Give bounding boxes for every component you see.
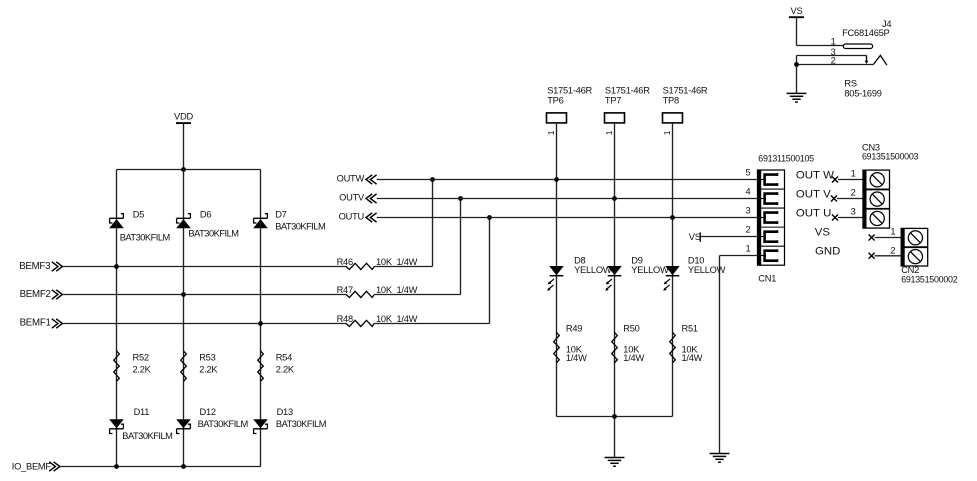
diode D12: [176, 419, 191, 433]
wire column 1: [116, 170, 118, 467]
svg-text:1: 1: [745, 244, 750, 254]
label J4 pin number 1: [831, 37, 836, 47]
label R49: [566, 323, 582, 333]
label CN1 pin number 4: [745, 187, 750, 197]
svg-text:TP6: TP6: [547, 96, 563, 106]
wire IO_BEMF: [60, 466, 261, 468]
svg-text:BAT30KFILM: BAT30KFILM: [275, 222, 325, 232]
label CN2 pin number 2: [890, 245, 895, 255]
svg-text:1/4W: 1/4W: [682, 353, 703, 363]
label CN1 pin number 1: [745, 244, 750, 254]
resistor R47: [346, 291, 374, 297]
svg-text:805-1699: 805-1699: [844, 89, 881, 99]
wire CN1 pin 1 to ground: [720, 256, 758, 454]
svg-text:BAT30KFILM: BAT30KFILM: [122, 431, 172, 441]
label CN2 part 691351500002: [901, 274, 958, 284]
svg-text:D13: D13: [277, 407, 293, 417]
label RS: [844, 78, 856, 88]
no-connect X GND: [869, 253, 875, 259]
svg-text:2: 2: [851, 187, 856, 197]
junction BEMF3 column 1: [114, 264, 119, 269]
junction BEMF1 column 3: [258, 321, 263, 326]
label R53 value: [199, 365, 218, 375]
resistor R49: [554, 332, 560, 362]
svg-text:1/4W: 1/4W: [566, 353, 587, 363]
label D6 value: [188, 229, 238, 239]
wire OUTV: [377, 198, 758, 200]
svg-text:5: 5: [745, 168, 750, 178]
net label VS (CN1 pin 2): [689, 232, 701, 242]
connector CN2 body: [901, 228, 928, 266]
wire TP6 column: [556, 123, 558, 417]
junction R48 OUTU: [487, 215, 492, 220]
svg-text:R49: R49: [566, 323, 582, 333]
label TP6 pin 1: [546, 130, 556, 135]
junction TP7: [612, 196, 617, 201]
wire column 2: [183, 170, 185, 467]
ground (J4): [787, 93, 807, 102]
svg-text:10K 1/4W: 10K 1/4W: [376, 285, 418, 295]
svg-text:TP8: TP8: [663, 96, 679, 106]
label R50 value 10K: [623, 344, 640, 354]
resistor R50: [612, 332, 618, 362]
svg-text:OUT U: OUT U: [796, 208, 831, 220]
connector CN1 pin 4 contact: [758, 192, 778, 205]
label R46: [337, 257, 353, 267]
label D11: [134, 407, 150, 417]
port BEMF3: [19, 261, 62, 272]
wire OUT W to CN3 pin 1: [838, 179, 863, 181]
LED D9: [605, 266, 622, 291]
svg-text:D7: D7: [275, 210, 286, 220]
connector CN1 body: [758, 170, 785, 265]
svg-text:4: 4: [745, 187, 750, 197]
svg-text:1: 1: [831, 37, 836, 47]
label TP7 refdes: [605, 96, 621, 106]
svg-text:CN1: CN1: [758, 273, 776, 283]
svg-text:BAT30KFILM: BAT30KFILM: [198, 419, 248, 429]
wire R48 to OUTU: [374, 218, 489, 324]
svg-text:S1751-46R: S1751-46R: [605, 85, 650, 95]
ground (LED bus): [605, 458, 625, 467]
label CN3 part 691351500003: [862, 152, 919, 162]
wire ground stem: [614, 417, 616, 458]
junction J4 pin 2 node: [794, 62, 799, 67]
label J4 refdes: [882, 19, 891, 29]
diode D11: [109, 419, 124, 433]
connector CN1 pin 2 contact: [758, 230, 778, 243]
label TP8 pin 1: [662, 130, 672, 135]
svg-text:2.2K: 2.2K: [276, 365, 295, 375]
label D13 value: [276, 419, 326, 429]
svg-text:RS: RS: [844, 78, 856, 88]
svg-text:D9: D9: [631, 256, 642, 266]
svg-text:3: 3: [851, 206, 856, 216]
junction R47 OUTV: [458, 196, 463, 201]
port IO_BEMF: [12, 461, 60, 471]
svg-text:BAT30KFILM: BAT30KFILM: [120, 233, 170, 243]
net label OUT U: [796, 208, 831, 220]
wire VS stem to J4 pin 1: [797, 17, 844, 45]
wire J4 pin 2: [797, 64, 874, 66]
label D5: [133, 210, 144, 220]
wire column 3: [260, 170, 262, 467]
label R51 value 10K: [682, 344, 699, 354]
resistor R48: [346, 320, 374, 326]
svg-text:R50: R50: [623, 323, 639, 333]
svg-text:2: 2: [745, 225, 750, 235]
label CN1 pin number 3: [745, 206, 750, 216]
wire OUTW: [377, 179, 758, 181]
svg-text:FC681465P: FC681465P: [842, 28, 889, 38]
svg-text:VS: VS: [815, 227, 831, 239]
svg-text:VS: VS: [791, 6, 803, 16]
port BEMF1: [20, 318, 63, 329]
wire J4 pin3 to pin2 to ground: [796, 56, 798, 94]
svg-text:YELLOW: YELLOW: [574, 265, 612, 275]
label D10: [688, 256, 704, 266]
label J4 pin number 3: [831, 47, 836, 57]
connector J4 switch arrow: [865, 56, 869, 65]
LED D8: [547, 266, 564, 291]
label D7 value: [275, 222, 325, 232]
wire GND to CN2 pin 2: [875, 255, 902, 257]
svg-text:GND: GND: [815, 246, 840, 258]
svg-text:2: 2: [890, 245, 895, 255]
svg-text:D6: D6: [200, 210, 211, 220]
label D12: [200, 407, 216, 417]
svg-text:OUTV: OUTV: [339, 193, 365, 203]
svg-text:OUT W: OUT W: [796, 170, 834, 182]
label TP8 refdes: [663, 96, 679, 106]
label TP6 part S1751-46R: [547, 85, 592, 95]
svg-text:OUT V: OUT V: [796, 189, 831, 201]
svg-text:1/4W: 1/4W: [623, 353, 644, 363]
svg-text:D8: D8: [574, 256, 585, 266]
resistor R54: [258, 351, 264, 381]
label R48 value: [376, 314, 418, 324]
port BEMF2: [20, 289, 63, 300]
port OUTW: [337, 174, 377, 185]
connector CN3 body: [863, 170, 890, 228]
diode D7: [253, 214, 268, 229]
label R51 value 1/4W: [682, 353, 703, 363]
LED D10: [663, 266, 680, 291]
svg-text:R48: R48: [337, 314, 353, 324]
label R49 value 10K: [566, 344, 583, 354]
junction LED ground bus: [612, 414, 617, 419]
label D11 value: [122, 431, 172, 441]
junction IO_BEMF column 1: [114, 464, 119, 469]
label 805-1699: [844, 89, 881, 99]
wire BEMF3: [63, 266, 347, 268]
svg-text:2.2K: 2.2K: [199, 365, 218, 375]
no-connect X VS: [869, 235, 875, 241]
wire VDD stem: [183, 123, 185, 169]
label D13: [277, 407, 293, 417]
svg-text:BAT30KFILM: BAT30KFILM: [188, 229, 238, 239]
label R48: [337, 314, 353, 324]
label R47 value: [376, 285, 418, 295]
wire VS to CN1 pin 2: [700, 236, 757, 238]
wire VS to CN2 pin 1: [875, 237, 902, 239]
svg-text:10K 1/4W: 10K 1/4W: [376, 314, 418, 324]
label CN2 refdes: [901, 265, 919, 275]
junction TP6: [554, 177, 559, 182]
junction TP8: [670, 215, 675, 220]
svg-text:OUTU: OUTU: [339, 212, 364, 222]
label TP7 pin 1: [604, 130, 614, 135]
svg-text:1: 1: [851, 168, 856, 178]
label D7: [275, 210, 286, 220]
diode D13: [253, 419, 268, 433]
label CN3 pin number 1: [851, 168, 856, 178]
label R52 value: [133, 365, 152, 375]
label CN1 pin number 2: [745, 225, 750, 235]
label R49 value 1/4W: [566, 353, 587, 363]
svg-text:BAT30KFILM: BAT30KFILM: [276, 419, 326, 429]
label CN1 pin number 5: [745, 168, 750, 178]
connector J4 pin 1 contact (tip): [843, 44, 872, 49]
svg-text:R52: R52: [133, 352, 149, 362]
svg-text:BEMF3: BEMF3: [19, 261, 50, 272]
net label OUT V: [796, 189, 831, 201]
svg-text:691351500002: 691351500002: [901, 274, 958, 284]
port OUTU: [339, 212, 377, 223]
label R46 value: [376, 257, 418, 267]
no-connect X OUT V: [831, 196, 837, 202]
label CN3 pin number 2: [851, 187, 856, 197]
wire TP7 column: [614, 123, 616, 417]
wire BEMF2: [63, 294, 347, 296]
power flag VDD: [174, 111, 193, 123]
label TP7 part S1751-46R: [605, 85, 650, 95]
label TP6 refdes: [547, 96, 563, 106]
svg-text:691351500003: 691351500003: [862, 152, 919, 162]
svg-text:D12: D12: [200, 407, 216, 417]
svg-text:R47: R47: [337, 285, 353, 295]
svg-text:VS: VS: [689, 232, 701, 242]
junction VDD bus: [181, 167, 186, 172]
label D6: [200, 210, 211, 220]
svg-text:S1751-46R: S1751-46R: [547, 85, 592, 95]
wire OUTU: [377, 217, 758, 219]
svg-text:VDD: VDD: [174, 111, 193, 121]
svg-text:BEMF1: BEMF1: [20, 318, 51, 329]
wire OUT V to CN3 pin 2: [837, 198, 863, 200]
resistor R52: [114, 351, 120, 381]
svg-text:3: 3: [745, 206, 750, 216]
test point TP7: [605, 113, 625, 123]
svg-text:IO_BEMF: IO_BEMF: [12, 461, 52, 471]
svg-text:691311500105: 691311500105: [758, 153, 814, 163]
svg-text:TP7: TP7: [605, 96, 621, 106]
label CN3 refdes: [862, 142, 880, 152]
net label OUT W: [796, 170, 834, 182]
svg-text:D11: D11: [134, 407, 150, 417]
svg-text:1: 1: [662, 130, 672, 135]
svg-text:2.2K: 2.2K: [133, 365, 152, 375]
junction R46 OUTW: [430, 177, 435, 182]
svg-text:S1751-46R: S1751-46R: [663, 85, 708, 95]
label R47: [337, 285, 353, 295]
no-connect X OUT U: [832, 215, 838, 221]
svg-text:10K 1/4W: 10K 1/4W: [376, 257, 418, 267]
resistor R51: [670, 332, 676, 362]
wire R46 to OUTW: [374, 180, 432, 267]
resistor R53: [181, 351, 187, 381]
label D9: [631, 256, 642, 266]
connector CN1 pin 1 contact: [758, 249, 778, 262]
port OUTV: [339, 193, 376, 204]
svg-text:R51: R51: [682, 323, 698, 333]
diode D5: [109, 214, 124, 229]
svg-text:D10: D10: [688, 256, 704, 266]
label D8: [574, 256, 585, 266]
label R50 value 1/4W: [623, 353, 644, 363]
net label GND: [815, 246, 840, 258]
wire VDD bus: [117, 169, 261, 171]
test point TP8: [663, 113, 683, 123]
label J4 value FC681465P: [842, 28, 889, 38]
label D10 value YELLOW: [688, 265, 726, 275]
svg-text:1: 1: [604, 130, 614, 135]
label D5 value: [120, 233, 170, 243]
resistor R46: [346, 263, 374, 269]
label CN2 pin number 1: [890, 226, 895, 236]
no-connect X OUT W: [832, 177, 838, 183]
svg-text:R54: R54: [276, 352, 292, 362]
junction IO_BEMF column 2: [181, 464, 186, 469]
wire J4 pin 3: [797, 55, 867, 57]
diode D6: [176, 214, 191, 229]
junction BEMF2 column 2: [181, 292, 186, 297]
svg-text:R53: R53: [199, 352, 215, 362]
svg-text:OUTW: OUTW: [337, 174, 365, 184]
test point TP6: [547, 113, 567, 123]
connector CN1 pin 5 contact: [758, 173, 778, 186]
label R54 value: [276, 365, 295, 375]
label R54: [276, 352, 292, 362]
svg-text:1: 1: [546, 130, 556, 135]
wire OUT U to CN3 pin 3: [838, 217, 863, 219]
label R51: [682, 323, 698, 333]
label D8 value YELLOW: [574, 265, 612, 275]
label CN1 part 691311500105: [758, 153, 814, 163]
svg-text:R46: R46: [337, 257, 353, 267]
net label VS (CN2): [815, 227, 831, 239]
svg-text:1: 1: [890, 226, 895, 236]
svg-text:YELLOW: YELLOW: [631, 265, 669, 275]
label TP8 part S1751-46R: [663, 85, 708, 95]
label R52: [133, 352, 149, 362]
label CN1 refdes: [758, 273, 776, 283]
label D9 value YELLOW: [631, 265, 669, 275]
label R53: [199, 352, 215, 362]
power flag VS (J4 supply): [789, 6, 804, 17]
label CN3 pin number 3: [851, 206, 856, 216]
wire LED ground bus: [557, 416, 673, 418]
label D12 value: [198, 419, 248, 429]
connector CN1 pin 3 contact: [758, 211, 778, 224]
wire TP8 column: [672, 123, 674, 417]
wire R47 to OUTV: [374, 199, 460, 295]
svg-text:BEMF2: BEMF2: [20, 289, 51, 300]
label R50: [623, 323, 639, 333]
label J4 pin number 2: [831, 55, 836, 65]
svg-text:D5: D5: [133, 210, 144, 220]
connector J4 tip lever: [873, 55, 887, 65]
ground (CN1 pin 1): [710, 454, 730, 463]
wire BEMF1: [63, 323, 347, 325]
